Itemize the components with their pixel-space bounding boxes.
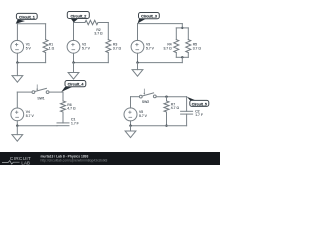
svg-text:http://circuitlab.com/c/p/e/wb: http://circuitlab.com/c/p/e/wbrnm8qq43xz… bbox=[41, 159, 108, 163]
wire: circuit 1 ground stem bbox=[16, 63, 18, 76]
wire: R7 branch lower bbox=[166, 113, 168, 126]
resistor R2 (horizontal) bbox=[85, 20, 98, 24]
svg-text:3.7 Ω: 3.7 Ω bbox=[113, 46, 122, 50]
wire: circuit 3 left upper bbox=[137, 24, 139, 41]
node: circuit 5 R7 top junction bbox=[165, 96, 167, 98]
wire: circuit 5 ground stem bbox=[130, 126, 132, 131]
wire: circuit 1 right upper bbox=[45, 24, 47, 40]
wire: circuit 2 ground stem bbox=[73, 63, 75, 73]
voltage source V4 bbox=[11, 108, 24, 121]
voltage source V2 bbox=[67, 40, 80, 53]
wire: circuit 2 top-left segment bbox=[74, 22, 86, 24]
label V1 5 V bbox=[26, 43, 32, 51]
wire: circuit 3 ground stem bbox=[137, 63, 139, 70]
wire: circuit 3 left lower bbox=[137, 53, 139, 62]
wire: circuit 5 right upper bbox=[186, 97, 188, 112]
wire: R5 branch upper bbox=[187, 28, 189, 40]
CircuitLab logo bbox=[2, 156, 31, 165]
wire: circuit 1 top bbox=[17, 23, 45, 25]
wire: circuit 5 top-left segment bbox=[131, 96, 140, 98]
flag Circuit_4 bbox=[61, 81, 86, 92]
flag Circuit_2 bbox=[67, 12, 89, 23]
flag Circuit_3 bbox=[138, 13, 160, 24]
wire: circuit 1 bottom bbox=[17, 62, 45, 64]
resistor R1 bbox=[43, 40, 48, 53]
svg-text:5 V: 5 V bbox=[26, 47, 32, 51]
label C2 1.7 F bbox=[195, 109, 203, 117]
wire: circuit 3 bottom bbox=[138, 62, 183, 64]
resistor R7 bbox=[164, 101, 169, 112]
node: circuit 4 ground junction bbox=[16, 125, 18, 127]
label R4 3.7 Ω bbox=[163, 42, 172, 50]
svg-text:3.7 Ω: 3.7 Ω bbox=[94, 32, 103, 36]
svg-text:SW1: SW1 bbox=[37, 96, 44, 100]
wire: R5 branch lower bbox=[187, 53, 189, 58]
svg-text:Circuit_3: Circuit_3 bbox=[141, 15, 157, 19]
voltage source V5 bbox=[124, 108, 137, 121]
label R2 3.7 Ω bbox=[94, 28, 103, 36]
svg-text:5.7 V: 5.7 V bbox=[26, 114, 35, 118]
svg-text:Circuit_1: Circuit_1 bbox=[19, 15, 35, 19]
ground (circuit 4) bbox=[12, 135, 23, 142]
ground (circuit 1) bbox=[12, 76, 23, 83]
node: circuit 3 bottom T junction bbox=[181, 56, 183, 58]
label V5 5.7 V bbox=[139, 110, 148, 118]
wire: circuit 2 bottom bbox=[74, 62, 109, 64]
wire: circuit 3 bottom stub bbox=[181, 57, 183, 62]
wire: circuit 4 ground stem bbox=[16, 126, 18, 135]
label V3 5.7 V bbox=[146, 43, 155, 51]
wire: circuit 1 right lower bbox=[45, 53, 47, 63]
wire: circuit 5 top-right segment bbox=[156, 96, 186, 98]
voltage source V3 bbox=[131, 40, 144, 53]
label R5 3.7 Ω bbox=[193, 42, 202, 50]
wire: circuit 4 right upper bbox=[62, 92, 64, 101]
wire: circuit 4 top-right segment bbox=[49, 91, 63, 93]
resistor R6 bbox=[61, 101, 66, 112]
svg-text:5.7 V: 5.7 V bbox=[139, 114, 148, 118]
wire: circuit 4 top-left segment bbox=[17, 91, 32, 93]
wire: R7 branch upper bbox=[166, 97, 168, 101]
wire: circuit 5 left upper bbox=[130, 97, 132, 108]
wire: circuit 3 bottom bar bbox=[176, 56, 188, 58]
wire: circuit 3 top bbox=[138, 23, 183, 25]
resistor R3 bbox=[106, 40, 111, 53]
wire: circuit 4 left lower bbox=[16, 121, 18, 126]
capacitor C2 bbox=[181, 111, 193, 114]
switch SW1 bbox=[32, 85, 49, 94]
svg-text:4.7 Ω: 4.7 Ω bbox=[67, 107, 76, 111]
switch SW2 bbox=[139, 89, 156, 98]
label R3 3.7 Ω bbox=[113, 42, 122, 50]
wire: R4 branch lower bbox=[175, 53, 177, 58]
wire: circuit 3 top stub bbox=[181, 24, 183, 28]
svg-text:Circuit_4: Circuit_4 bbox=[68, 83, 85, 87]
svg-text:1.7 F: 1.7 F bbox=[195, 113, 203, 117]
wire: circuit 4 left upper bbox=[16, 92, 18, 108]
wire: circuit 4 bottom bbox=[17, 125, 57, 127]
node: circuit 1 ground junction bbox=[16, 61, 18, 63]
wire: circuit 5 bottom bbox=[131, 125, 187, 127]
wire: circuit 2 right upper bbox=[107, 23, 109, 40]
svg-text:3.7 Ω: 3.7 Ω bbox=[193, 46, 202, 50]
voltage source V1 bbox=[11, 40, 24, 53]
node: circuit 3 top T junction bbox=[181, 27, 183, 29]
flag Circuit_1 bbox=[16, 13, 37, 23]
ground (circuit 2) bbox=[68, 73, 79, 80]
wire: circuit 2 right lower bbox=[107, 53, 109, 63]
svg-text:LAB: LAB bbox=[21, 160, 30, 165]
label V4 5.7 V bbox=[26, 110, 35, 118]
svg-text:5.7 V: 5.7 V bbox=[146, 47, 155, 51]
svg-text:Circuit_5: Circuit_5 bbox=[192, 102, 207, 106]
wire: circuit 5 left lower bbox=[130, 121, 132, 126]
wire: circuit 1 left lower bbox=[16, 53, 18, 62]
svg-text:Circuit_2: Circuit_2 bbox=[71, 14, 87, 18]
wire: circuit 1 left upper bbox=[16, 24, 18, 41]
ground (circuit 5) bbox=[125, 131, 136, 138]
label C1 1.7 F bbox=[71, 117, 79, 125]
flag Circuit_5 bbox=[187, 97, 209, 107]
svg-text:5.7 V: 5.7 V bbox=[82, 47, 91, 51]
wire: R6 to C1 bbox=[62, 113, 64, 123]
node: circuit 5 R7 bottom junction bbox=[165, 125, 167, 127]
node: circuit 3 ground junction bbox=[136, 61, 138, 63]
label V2 5.7 V bbox=[82, 43, 91, 51]
wire: circuit 2 left lower bbox=[73, 53, 75, 62]
ground (circuit 3) bbox=[132, 70, 143, 77]
label R1 1 Ω bbox=[49, 42, 55, 50]
wire: circuit 3 top bar bbox=[176, 27, 188, 29]
svg-text:SW2: SW2 bbox=[142, 100, 149, 104]
capacitor C1 bbox=[57, 123, 69, 126]
wire: circuit 5 right lower bbox=[186, 114, 188, 126]
label R6 4.7 Ω bbox=[67, 103, 76, 111]
node: circuit 5 ground junction bbox=[129, 125, 131, 127]
node: circuit 2 ground junction bbox=[72, 61, 74, 63]
label R7 4.7 Ω bbox=[171, 102, 180, 110]
svg-text:4.7 Ω: 4.7 Ω bbox=[171, 106, 180, 110]
resistor R5 bbox=[186, 40, 191, 53]
wire: circuit 2 top-right segment bbox=[99, 22, 108, 24]
svg-text:1.7 F: 1.7 F bbox=[71, 122, 79, 126]
svg-text:1 Ω: 1 Ω bbox=[49, 46, 55, 50]
resistor R4 bbox=[174, 40, 179, 53]
wire: R4 branch upper bbox=[175, 28, 177, 40]
wire: circuit 2 left upper bbox=[73, 23, 75, 41]
svg-text:3.7 Ω: 3.7 Ω bbox=[163, 46, 172, 50]
